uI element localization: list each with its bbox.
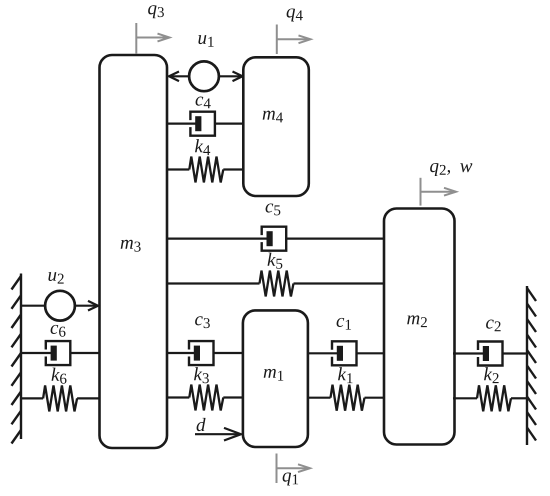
label k1 <box>338 367 352 383</box>
label m3 <box>121 240 141 252</box>
wire c1 rod <box>307 352 337 354</box>
wire u2 arrow to m3 <box>75 301 99 311</box>
wire u1 left arrow <box>169 72 190 82</box>
disturbance arrow d <box>195 428 241 441</box>
wall left <box>12 274 22 444</box>
wire u1 right arrow <box>219 72 243 82</box>
wire k6 left <box>21 397 43 399</box>
wire k4 right <box>223 168 245 170</box>
wire k3 left <box>166 396 189 398</box>
label k6 <box>52 368 67 384</box>
spring k6 <box>43 385 77 411</box>
spring k2 <box>477 385 511 411</box>
damper c5 <box>262 227 287 251</box>
label m1 <box>264 369 284 381</box>
label k5 <box>268 253 283 269</box>
label k4 <box>195 139 210 155</box>
wire c6 to m3 <box>70 352 100 354</box>
wire c5 to m2 <box>286 238 385 240</box>
mass m4 <box>243 57 308 196</box>
label c1 <box>337 318 351 330</box>
wire k6 right <box>77 397 100 399</box>
label m2 <box>407 315 427 327</box>
wire k1 right <box>365 397 386 399</box>
damper c6 <box>46 341 71 365</box>
label k3 <box>194 367 209 383</box>
wall right <box>527 286 536 445</box>
label q1 <box>283 473 298 486</box>
force source u1 <box>189 61 219 91</box>
label u1 <box>198 35 213 47</box>
label m4 <box>263 111 283 123</box>
mass m3 <box>100 55 168 448</box>
label u2 <box>48 272 63 284</box>
wire c6 rod <box>21 352 51 354</box>
spring k1 <box>331 385 365 411</box>
label d <box>197 418 206 431</box>
label c4 <box>196 97 211 109</box>
label c5 <box>266 203 281 215</box>
wire c3 to m1 <box>214 352 244 354</box>
wire c3 rod <box>166 352 194 354</box>
label c2 <box>486 320 501 332</box>
damper c4 <box>190 112 215 136</box>
force source u2 <box>45 291 75 321</box>
mass m1 <box>243 310 308 447</box>
wire c2 rod <box>453 352 483 354</box>
wire k2 left <box>453 397 477 399</box>
wire u2 from wall <box>21 305 46 307</box>
label k2 <box>484 367 499 383</box>
wire k4 left <box>166 168 189 170</box>
wire k2 right <box>511 397 527 399</box>
wire c5 rod <box>166 238 267 240</box>
coordinate q4 <box>277 25 311 55</box>
spring k4 <box>189 157 223 183</box>
damper c2 <box>478 342 503 366</box>
wire k1 left <box>307 397 331 399</box>
damper c1 <box>332 341 357 365</box>
wire c2 to wall <box>503 352 528 354</box>
coordinate q1 <box>277 454 311 484</box>
wire c4 rod <box>166 122 196 124</box>
mass m2 <box>384 209 455 445</box>
wire k3 right <box>223 396 243 398</box>
spring k5 <box>260 271 294 297</box>
label q2,w <box>430 163 472 176</box>
label q3 <box>148 5 164 18</box>
label c6 <box>51 325 66 337</box>
coordinate q3 <box>136 23 169 54</box>
spring k3 <box>189 385 223 411</box>
coordinate q2,w <box>421 178 457 206</box>
damper c3 <box>189 341 214 365</box>
wire k5 right <box>294 282 386 284</box>
wire c4 to m4 <box>215 122 245 124</box>
label q4 <box>287 8 303 21</box>
wire k5 left <box>166 282 260 284</box>
wire c1 to m2 <box>357 352 386 354</box>
label c3 <box>195 316 210 328</box>
